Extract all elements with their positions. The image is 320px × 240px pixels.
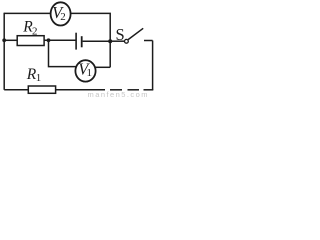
wire: middle wire from left rail to R2 <box>4 39 17 41</box>
voltmeter V1 <box>75 60 95 81</box>
node: left rail / middle wire junction <box>2 38 6 42</box>
battery: short thick plate <box>81 36 83 47</box>
wire: bottom wire dashed segment 3 joining right rail <box>144 89 154 91</box>
wire: top wire left segment <box>4 12 51 14</box>
resistor R1 <box>28 86 55 93</box>
voltmeter V2 <box>51 2 71 25</box>
svg-text:S: S <box>116 25 125 44</box>
wire: bottom wire dashed segment 2 <box>128 89 140 91</box>
wire: middle wire from R2 to battery <box>44 39 76 41</box>
wire: V1 branch - down from tap and right to V1 <box>49 40 77 66</box>
wire: V1 right lead to vertical <box>95 66 110 68</box>
wire: top wire right segment with corner down to junction A <box>71 13 111 40</box>
wire: bottom wire dashed segment 1 <box>110 89 122 91</box>
wire: switch fixed contact to right corner <box>144 40 153 42</box>
wire: middle wire from battery to junction A <box>83 40 111 42</box>
wire: vertical from junction A down to V1 right lead <box>109 41 111 67</box>
wire: junction A to switch pivot <box>110 40 124 42</box>
svg-text:1: 1 <box>87 67 93 79</box>
svg-text:1: 1 <box>36 72 42 84</box>
switch pivot circle <box>125 39 129 43</box>
wire: bottom wire solid from left rail through R1 <box>4 89 105 91</box>
battery: long plate <box>75 33 77 50</box>
svg-text:2: 2 <box>60 11 66 23</box>
wire: right vertical rail <box>152 41 154 90</box>
switch blade (open) <box>128 28 143 39</box>
wire: left vertical rail <box>3 13 5 90</box>
node A: middle/top/switch/V1 junction <box>108 39 112 43</box>
svg-text:2: 2 <box>32 25 38 37</box>
svg-text:manfen5.com: manfen5.com <box>88 90 149 99</box>
node: tap for V1 branch <box>47 38 51 42</box>
resistor R2 <box>17 36 44 46</box>
